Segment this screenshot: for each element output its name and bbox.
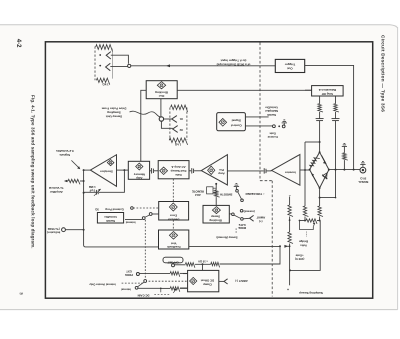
resistor R7 offset feed <box>195 262 220 267</box>
svg-text:Pre: Pre <box>219 168 224 172</box>
resistor R5 bias <box>215 190 220 206</box>
svg-text:Inverter: Inverter <box>284 170 295 174</box>
dashed ganged-switch linkage <box>144 220 146 278</box>
svg-text:AWAIT: AWAIT <box>256 216 265 220</box>
label: TRIGGERED <box>245 192 264 196</box>
svg-text:−: − <box>289 193 291 197</box>
wire: offset line loop to minus rail <box>220 246 280 264</box>
switch SW3 smooth/triggered with ground <box>234 184 244 212</box>
svg-text:Internal Vernier Only: Internal Vernier Only <box>89 282 116 286</box>
svg-text:Clamp: Clamp <box>203 282 212 286</box>
svg-text:MODE: MODE <box>238 226 246 230</box>
svg-text:Blocking: Blocking <box>209 218 221 222</box>
connector J1 signal jack <box>360 167 366 173</box>
svg-text:SIGNAL: SIGNAL <box>358 180 369 184</box>
wire: clamp upper stub <box>183 273 188 275</box>
wire: label arrow to stretcher input <box>71 160 80 169</box>
label: Gain Control <box>267 131 277 139</box>
svg-text:Multiplier: Multiplier <box>264 109 278 113</box>
node: output jack (To 561B Indicator) <box>47 227 84 235</box>
ground at gain switch <box>282 120 287 125</box>
label: Drive Pulse From Sampling Sweep Unit <box>101 107 126 119</box>
label: AWAIT (-) <box>235 279 247 283</box>
wire: right strobe leg down <box>335 121 337 198</box>
dashed stub below gate mode <box>235 228 237 233</box>
capacitor C11 on right strobe leg <box>332 119 340 121</box>
svg-text:Internal: Internal <box>125 220 135 224</box>
figure frame <box>45 42 372 298</box>
label: +Gate (100 V) <box>295 254 305 262</box>
dashed vernier line <box>122 282 145 284</box>
svg-text:Trigger: Trigger <box>284 63 295 67</box>
svg-text:Blocking: Blocking <box>155 90 168 94</box>
wire: left vertical signal rail <box>83 170 159 247</box>
switch SW2 gain control contacts <box>273 125 286 128</box>
svg-text:Memory: Memory <box>133 172 144 176</box>
label: Units/Div Multiplier Switch <box>264 106 278 117</box>
label: To Vertical Amplifier <box>49 186 64 194</box>
svg-text:Control: Control <box>231 123 242 127</box>
node: trigger takeoff terminal <box>128 64 131 67</box>
wire: trigger out to right rail, down to signal line <box>305 65 354 169</box>
horizontal sampling gate CR2 (dashed box, diode forks, resistors) <box>169 105 187 147</box>
wire: bridge to signal out jack <box>329 169 360 171</box>
svg-text:SMOOTH: SMOOTH <box>220 193 232 197</box>
diode fork to await gate <box>250 215 254 221</box>
svg-text:○ TRIGGERED: ○ TRIGGERED <box>245 192 264 196</box>
front-panel control: OFFSET <box>163 257 183 264</box>
diode fork at clamp output <box>219 279 228 284</box>
svg-text:(normal): (normal) <box>244 210 255 214</box>
vertical sampling gate CR1 (dashed box, two gate diodes, resistors R around) <box>95 45 113 87</box>
block: Blocking Osc U1 <box>146 81 177 99</box>
resistor R10 on left strobe leg <box>318 96 323 118</box>
label: (to A Trigger Input of a 561B Oscilloscope) <box>217 59 251 67</box>
label: (normal) <box>244 210 255 214</box>
svg-text:Out: Out <box>287 67 292 71</box>
switch SW6 dc gain contacts <box>135 280 146 290</box>
wire: squiggly label pointer <box>130 111 161 116</box>
svg-text:(to A Trigger Input: (to A Trigger Input <box>221 59 247 63</box>
svg-text:AC Amp &: AC Amp & <box>171 165 185 169</box>
wire: sweep volts rail loop <box>289 221 320 272</box>
svg-text:Bridge: Bridge <box>299 240 309 244</box>
page right edge <box>397 27 399 310</box>
label: SMOOTH <box>220 193 232 197</box>
block: Relaxation & Sing Off <box>312 86 344 96</box>
svg-text:Signals: Signals <box>59 153 70 157</box>
label: 50 ohm SIGNAL <box>358 177 369 184</box>
svg-text:EXT: EXT <box>126 269 132 273</box>
svg-text:Sweep Unit: Sweep Unit <box>106 115 122 119</box>
wire: real-time trigger signal line with left arrow <box>131 64 275 67</box>
wire: units/div switch to SW5 <box>125 218 142 220</box>
svg-text:REMOTE: REMOTE <box>192 189 204 193</box>
svg-text:DC GAIN: DC GAIN <box>138 294 150 298</box>
wire: feedback branch down and left <box>99 170 124 192</box>
wire gate diode 2 to terminal <box>110 66 127 68</box>
wire: clamp lower stub <box>180 287 188 289</box>
capacitor C4 coupling <box>189 168 201 173</box>
svg-text:AWAIT (-): AWAIT (-) <box>235 279 247 283</box>
svg-text:Fig. 4-1. Type 3S6 and samplin: Fig. 4-1. Type 3S6 and sampling sweep un… <box>31 95 36 249</box>
label: Internal <box>125 220 135 224</box>
svg-text:Control: Control <box>267 135 277 139</box>
svg-text:5Ω: 5Ω <box>95 207 99 211</box>
svg-text:Error: Error <box>169 214 177 218</box>
wire: pre amp bias tap down <box>215 183 217 190</box>
resistor R3 to vertical amplifier <box>64 179 84 184</box>
svg-text:Signal: Signal <box>232 119 241 123</box>
op-amp U2 stretcher amplifier (triangle) <box>90 155 116 187</box>
svg-text:Drive Pulse From: Drive Pulse From <box>101 107 126 111</box>
potentiometer R14 with wiper loop <box>299 219 321 230</box>
node: EXT PROG terminal <box>125 269 140 277</box>
wire: blocking osc left to memory amp <box>141 90 146 161</box>
wire: terminal to diode CR2b <box>161 121 172 128</box>
svg-text:Indicator): Indicator) <box>47 231 60 235</box>
svg-text:Circuit Description — Type 3S6: Circuit Description — Type 3S6 <box>381 35 386 112</box>
svg-text:Amplifier: Amplifier <box>49 190 63 194</box>
svg-text:4-2: 4-2 <box>15 39 21 48</box>
svg-text:Osc: Osc <box>158 94 164 98</box>
capacitor C5 coupling <box>227 168 271 173</box>
svg-text:+: + <box>287 287 289 291</box>
svg-text:1 kΩ: 1 kΩ <box>174 143 181 147</box>
svg-text:Stretcher: Stretcher <box>99 170 113 174</box>
block: AC Amp & Fwd Sweep Gate <box>158 161 189 179</box>
svg-text:External Prog: External Prog <box>105 207 123 211</box>
svg-text:Amp: Amp <box>136 176 143 180</box>
svg-text:+Gate: +Gate <box>295 254 304 258</box>
page bottom edge <box>0 309 398 311</box>
block: Vert Feedback <box>159 230 189 249</box>
svg-text:Amp: Amp <box>218 172 225 176</box>
resistor R11 on right strobe leg <box>334 96 339 118</box>
supply rail with resistors R15 R16 (minus to plus) <box>287 193 293 291</box>
svg-text:Volts: Volts <box>300 243 307 247</box>
switch SW5 internal/external <box>142 213 158 220</box>
svg-text:ADJ: ADJ <box>195 193 201 197</box>
wire: bridge top branch to inverter rail <box>305 141 320 143</box>
wire from gate diode to trigger node <box>111 55 129 64</box>
svg-text:PROG: PROG <box>125 273 133 277</box>
svg-text:Sweep: Sweep <box>211 215 220 219</box>
svg-text:5 pF: 5 pF <box>89 188 95 192</box>
svg-text:Switch: Switch <box>106 219 116 223</box>
svg-text:of a 561B Oscilloscope): of a 561B Oscilloscope) <box>217 62 251 66</box>
resistor R8 ext prog <box>139 272 187 277</box>
svg-text:(100 V): (100 V) <box>295 257 305 261</box>
variable capacitor C2 in feedback <box>84 189 101 196</box>
block: Signal Control <box>217 113 246 131</box>
node: external prog inline terminal <box>95 207 158 212</box>
dashed link AC amp to error detector <box>172 179 174 202</box>
label: 1 Mohm 5 pF <box>88 185 96 193</box>
resistor R12 below bridge <box>318 198 323 221</box>
wire: signal control upper stub <box>245 116 268 118</box>
ground at J1 <box>360 161 365 167</box>
svg-text:≈ 10 ΩA: ≈ 10 ΩA <box>198 259 208 263</box>
svg-text:Gate: Gate <box>175 173 182 177</box>
wire: inverter output to bridge <box>300 169 310 171</box>
label: Internal Vernier Only <box>89 282 116 286</box>
label: sweep normal mode <box>216 236 237 240</box>
diode bridge CR10-CR13 (sampling bridge diamond) <box>309 151 330 189</box>
svg-text:Internal: Internal <box>121 288 131 292</box>
label: AWAIT (+) <box>256 216 265 224</box>
svg-text:Vert: Vert <box>171 241 177 245</box>
capacitor C10 on left strobe leg <box>316 119 324 121</box>
node: offset pot terminal <box>172 264 175 267</box>
label: Sampling Sweep <box>299 291 323 295</box>
dashed wire into clamp <box>149 280 188 282</box>
svg-text:1 kΩ: 1 kΩ <box>102 83 109 87</box>
diode CR2a <box>172 116 177 123</box>
wire: bridge bottom to sweep node <box>319 188 337 199</box>
variable resistor R9 dc gain <box>161 287 188 293</box>
wire: SW6 to variable resistor <box>138 287 161 289</box>
switch SW4 gate mode <box>229 213 249 220</box>
block: Error Detector <box>159 202 189 222</box>
svg-text:Sing Off: Sing Off <box>322 92 333 96</box>
svg-text:Units/Div: Units/Div <box>104 215 117 219</box>
wire: signal control to gain switch <box>245 125 272 127</box>
capacitor C3 coupling <box>150 168 159 173</box>
block: DC Offset Clamp <box>188 270 219 291</box>
resistor R6 offset feed <box>175 263 195 268</box>
block: Units/Div Switch <box>97 213 123 224</box>
dashed link error detector to vert feedback <box>172 220 174 230</box>
svg-text:DC Offset: DC Offset <box>201 278 214 282</box>
wire: vert feedback output with arrow into minus rail <box>189 245 290 248</box>
node: gate drive terminal <box>159 117 163 121</box>
svg-text:To Vertical: To Vertical <box>49 186 64 190</box>
page top edge <box>0 25 398 28</box>
wire: terminal to diode CR2a <box>164 118 172 120</box>
op-amp U3 pre amp (triangle) <box>201 155 227 185</box>
wire: blocking osc down to gate drive node <box>160 99 162 117</box>
svg-text:Relaxation &: Relaxation & <box>319 88 337 92</box>
dashed unit boundary line <box>260 43 272 297</box>
wire: blocking osc to relaxation block <box>177 89 311 91</box>
node: offset junction to clamp <box>202 263 204 270</box>
wire: stretcher output to vertical rail <box>83 169 91 171</box>
svg-text:Feedback: Feedback <box>167 245 181 249</box>
svg-text:(+): (+) <box>259 220 263 224</box>
svg-text:1 MΩ: 1 MΩ <box>88 185 96 189</box>
label: Bridge Volts <box>299 232 309 248</box>
diode CR2b <box>173 126 178 133</box>
op-amp U4 inverter amplifier (triangle) <box>272 155 300 186</box>
label: 0.2 Volts/Div Signals <box>56 149 74 157</box>
svg-text:Switch: Switch <box>267 113 277 117</box>
wire: stretcher input from memory chain <box>117 169 129 171</box>
svg-text:Gain: Gain <box>269 131 276 135</box>
resistor R17 to chassis ground <box>343 147 348 170</box>
svg-text:Fwd Sweep: Fwd Sweep <box>170 169 186 173</box>
label: Internal (lower) <box>121 288 162 293</box>
component box across R5 <box>207 187 217 194</box>
block: Sweep Blocking <box>203 205 229 223</box>
svg-text:0.2 Volts/Div: 0.2 Volts/Div <box>56 149 74 153</box>
label: approx 10 uA <box>198 259 208 263</box>
svg-text:Sweep (Normal): Sweep (Normal) <box>216 236 237 240</box>
block: Memory Amp <box>128 161 149 180</box>
svg-text:Sampling: Sampling <box>107 111 121 115</box>
ground above R17 <box>342 143 347 146</box>
label: DC GAIN <box>138 294 170 298</box>
svg-text:(To 561B: (To 561B <box>48 227 60 231</box>
wire: left strobe leg to bridge top <box>319 121 321 152</box>
svg-text:Units/Div: Units/Div <box>265 106 278 110</box>
resistor R13 on inverter rail <box>303 142 308 221</box>
label: GATE MODE <box>238 223 246 230</box>
wire: into relaxation block <box>305 89 312 91</box>
svg-text:Sampling Sweep: Sampling Sweep <box>299 291 323 295</box>
label: REMOTE ADJ <box>192 189 204 197</box>
block: Trigger Out <box>275 59 304 72</box>
